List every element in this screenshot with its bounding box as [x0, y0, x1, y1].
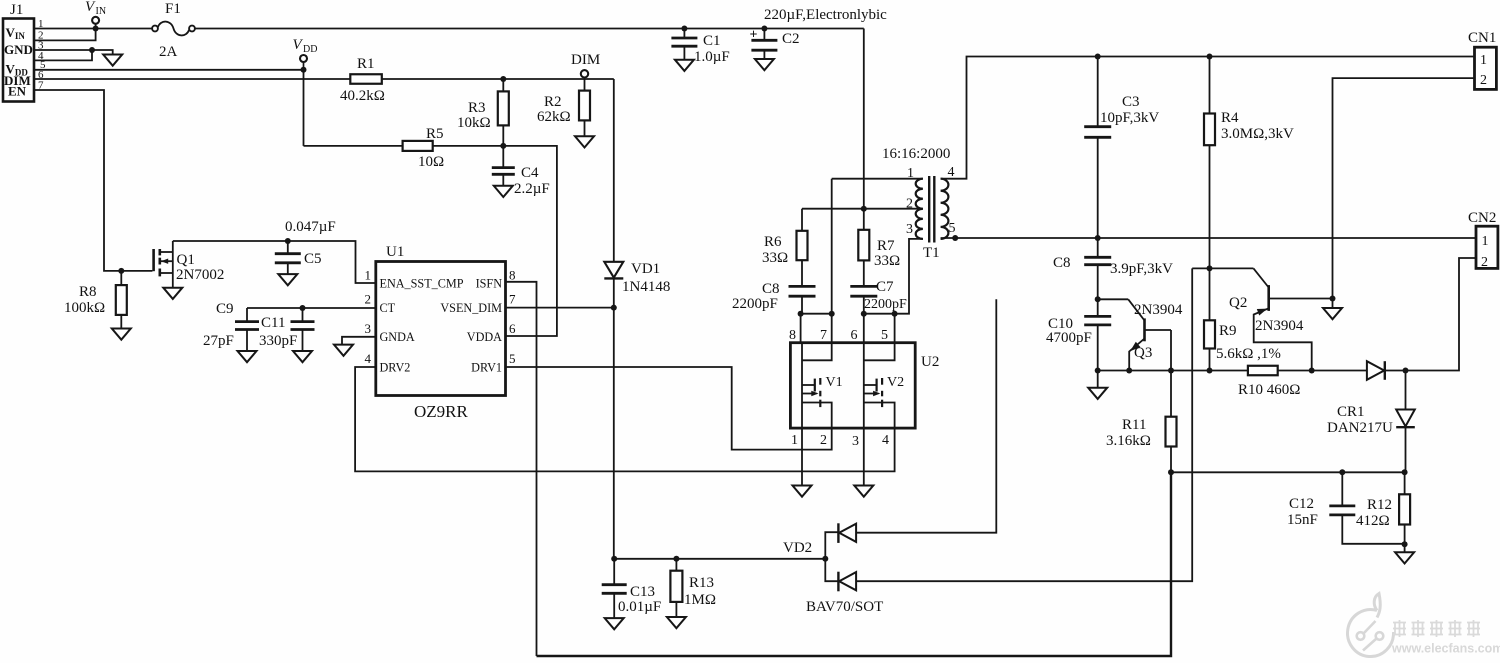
capacitor C1 [671, 29, 729, 66]
svg-text:1: 1 [1482, 234, 1489, 249]
watermark logo [1348, 594, 1394, 657]
ground at J1 [103, 55, 122, 66]
wire T1 pin5 to CN2 pin1 [941, 237, 1476, 239]
transistor Q2 2N3904 [1229, 268, 1333, 370]
wire U1 pin8 ISFN sense line [506, 282, 537, 656]
capacitor C11 [259, 308, 315, 351]
svg-text:J1: J1 [10, 2, 23, 18]
ground at R13 [667, 617, 686, 628]
svg-text:3: 3 [906, 222, 913, 237]
svg-text:2200pF: 2200pF [732, 296, 778, 312]
fuse F1 [152, 1, 195, 60]
node C2 junction [761, 26, 767, 32]
node C13 junction [611, 556, 617, 562]
wire J1 pin2 to VIN node [34, 29, 96, 41]
svg-text:Q1: Q1 [177, 252, 195, 268]
wire U1 pin5 DRV1 to U2 pin2 [506, 367, 832, 450]
node VD2 common junction [822, 556, 828, 562]
svg-text:ISFN: ISFN [476, 277, 503, 291]
ground at U2 pin1 [793, 486, 812, 497]
capacitor C4 [492, 146, 550, 197]
watermark text [1391, 620, 1500, 656]
wire R5 to VDDA corner [433, 146, 557, 336]
svg-text:Q2: Q2 [1229, 295, 1247, 311]
svg-text:C2: C2 [782, 31, 800, 47]
wire J1 pin6 to R1 [34, 78, 350, 80]
node C8 bottom junction [798, 311, 804, 317]
svg-text:C4: C4 [521, 165, 539, 181]
node R3 bottom junction [500, 143, 506, 149]
svg-text:R2: R2 [544, 94, 562, 110]
svg-text:VD1: VD1 [631, 261, 660, 277]
svg-text:OZ9RR: OZ9RR [414, 402, 469, 421]
resistor R8 [64, 271, 127, 329]
resistor R11 [1106, 371, 1177, 473]
svg-text:V1: V1 [826, 375, 843, 390]
wire VDD corner to R5 [304, 145, 403, 147]
svg-text:27pF: 27pF [203, 333, 234, 349]
wire Q1 drain rail to U1 pin1 [173, 241, 376, 283]
svg-text:1: 1 [365, 268, 372, 283]
svg-text:8: 8 [789, 328, 796, 343]
ground at GNDA [334, 345, 353, 356]
capacitor C2 electrolytic [750, 7, 888, 59]
wire CN1 pin2 to Q2 base node [1333, 78, 1475, 298]
svg-text:4: 4 [365, 351, 372, 366]
svg-text:CR1: CR1 [1337, 404, 1365, 420]
node DIM test point [571, 52, 600, 78]
wire DIM row down to VD1 [613, 79, 615, 262]
svg-text:1MΩ: 1MΩ [684, 592, 716, 608]
node R12 top junction [1402, 469, 1408, 475]
wire ground stub [92, 50, 113, 55]
svg-text:C3: C3 [1122, 94, 1140, 110]
svg-text:3: 3 [852, 434, 859, 449]
svg-text:5: 5 [881, 328, 888, 343]
wire R11 node row to CR1 bottom [1171, 471, 1405, 473]
wire VD2 lower anode to Q2 collector node riser [856, 268, 1192, 581]
svg-text:0.01µF: 0.01µF [618, 599, 661, 615]
resistor R7 [858, 209, 900, 287]
resistor R2 [537, 79, 590, 136]
svg-text:C9: C9 [216, 301, 234, 317]
svg-text:R3: R3 [468, 100, 486, 116]
transistor Q3 2N3904 [1128, 299, 1183, 370]
svg-text:40.2kΩ: 40.2kΩ [340, 88, 385, 104]
svg-text:R13: R13 [689, 575, 714, 591]
diode CR1 second [1396, 371, 1415, 473]
wire J1 pin7 EN to Q1 gate [34, 90, 152, 271]
ground at C11 [293, 351, 312, 362]
svg-text:8: 8 [509, 268, 516, 283]
resistor R12 [1356, 472, 1410, 552]
capacitor C7 snubber [850, 279, 907, 314]
svg-text:1N4148: 1N4148 [622, 279, 670, 295]
resistor R6 [762, 209, 808, 287]
svg-text:DRV1: DRV1 [471, 361, 502, 375]
node T1 pin5 junction [952, 235, 958, 241]
node R9 bottom junction [1207, 368, 1213, 374]
svg-text:100kΩ: 100kΩ [64, 300, 105, 316]
wire U2 pin7 pin8 drain node [801, 313, 832, 315]
wire U1 pin4 DRV2 to U2 pin4 [355, 367, 895, 471]
node R12 bottom junction [1402, 541, 1408, 547]
node R11 bottom junction [1168, 469, 1174, 475]
svg-text:1: 1 [1480, 53, 1487, 68]
svg-text:0.047µF: 0.047µF [285, 219, 336, 235]
node VIN test point [85, 0, 106, 32]
node Q2 base ground junction [1330, 296, 1336, 302]
svg-text:10pF,3kV: 10pF,3kV [1100, 110, 1159, 126]
svg-text:4: 4 [948, 165, 955, 180]
svg-text:C5: C5 [304, 251, 322, 267]
wire fuse to C1 C2 rail [195, 28, 864, 30]
svg-text:C1: C1 [703, 33, 721, 49]
node C5 junction [285, 238, 291, 244]
resistor R4 [1204, 54, 1294, 269]
resistor R10 [1238, 366, 1300, 398]
wire R10 to CR1 [1278, 370, 1367, 372]
svg-text:R6: R6 [764, 234, 782, 250]
svg-text:GNDA: GNDA [380, 330, 415, 344]
ground at C4 [494, 186, 513, 197]
svg-text:R4: R4 [1221, 110, 1239, 126]
ground at C5 [278, 274, 297, 285]
wire C10 node to Q3 collector [1098, 298, 1129, 300]
ground at C1 [675, 60, 694, 71]
svg-text:2: 2 [906, 197, 913, 212]
connector J1 [3, 2, 46, 102]
svg-text:5: 5 [509, 351, 516, 366]
wire U2 pin5 stub [894, 314, 896, 343]
wire C13 node to VD2 node [614, 558, 825, 560]
svg-text:2: 2 [820, 433, 827, 448]
capacitor C3 [1084, 54, 1159, 239]
svg-text:2.2µF: 2.2µF [514, 181, 550, 197]
node C12 junction [1339, 469, 1345, 475]
capacitor C5 [275, 219, 336, 274]
wire J1 pin1 to fuse F1 [34, 28, 152, 30]
capacitor C8 sense 3.9pF [1053, 238, 1173, 299]
node U2 pin7 junction [829, 311, 835, 317]
ground at U2 pin3 [854, 486, 873, 497]
svg-text:R9: R9 [1219, 323, 1237, 339]
svg-text:C7: C7 [876, 279, 894, 295]
wire U2 pin8 stub [800, 314, 802, 343]
wire center tap row [802, 208, 923, 210]
svg-text:R1: R1 [357, 56, 375, 72]
wire Q3 base to R11 node [1170, 330, 1172, 371]
node C3 C8 junction [1095, 235, 1101, 241]
svg-text:DAN217U: DAN217U [1327, 420, 1393, 436]
svg-text:4700pF: 4700pF [1046, 330, 1092, 346]
svg-text:2: 2 [1481, 255, 1488, 270]
svg-text:T1: T1 [923, 245, 940, 261]
svg-text:7: 7 [820, 328, 827, 343]
ground at R2 [575, 136, 594, 147]
wire J1 pin3 to ground node [34, 49, 92, 51]
node C1 junction [681, 26, 687, 32]
svg-text:VSEN_DIM: VSEN_DIM [440, 301, 502, 315]
wire R11 bottom to sense rail [537, 472, 1172, 656]
capacitor C9 [203, 301, 259, 351]
connector CN2 [1468, 210, 1498, 270]
wire U2 pin5 pin6 drain node [864, 313, 895, 315]
svg-text:www.elecfans.com: www.elecfans.com [1391, 642, 1500, 656]
svg-text:IN: IN [96, 6, 107, 17]
wire T1 pin1 riser to U2 pin7 [831, 179, 833, 343]
svg-text:R12: R12 [1367, 497, 1392, 513]
svg-text:CN2: CN2 [1468, 210, 1496, 226]
diode VD1 1N4148 [604, 261, 670, 295]
node C11 junction [300, 305, 306, 311]
svg-text:U1: U1 [386, 244, 404, 260]
node Q2 emitter junction [1309, 368, 1315, 374]
svg-text:BAV70/SOT: BAV70/SOT [806, 599, 883, 615]
svg-text:R11: R11 [1122, 417, 1146, 433]
wire U2 pin1 to ground [801, 428, 803, 485]
svg-text:U2: U2 [921, 354, 939, 370]
wire C10 bottom ground stub [1097, 371, 1099, 388]
diode VD2 upper [783, 523, 856, 559]
svg-text:ENA_SST_CMP: ENA_SST_CMP [380, 277, 464, 291]
svg-text:VDDA: VDDA [467, 330, 502, 344]
svg-text:CN1: CN1 [1468, 30, 1496, 46]
wire T1 pin4 to HV rail [941, 57, 1475, 179]
svg-text:220µF,Electronlybic: 220µF,Electronlybic [764, 7, 887, 23]
wire J1 pin4 to ground node [34, 50, 92, 60]
wire T1 pin2 center tap rail [863, 29, 865, 209]
wire U2 pin6 stub [863, 314, 865, 343]
node Q3 emitter junction [1126, 368, 1132, 374]
capacitor C10 [1046, 299, 1111, 370]
svg-text:R8: R8 [79, 284, 97, 300]
node VSEN junction [611, 305, 617, 311]
transistor V1 [802, 343, 843, 428]
svg-text:2N7002: 2N7002 [176, 267, 224, 283]
wire R1 to DIM node to VD1 corner [382, 78, 614, 80]
ground at C9 [238, 351, 257, 362]
svg-text:DD: DD [303, 44, 317, 55]
svg-text:C13: C13 [630, 584, 655, 600]
wire VD2 upper anode to C10 node riser [856, 299, 996, 532]
svg-text:7: 7 [509, 292, 516, 307]
resistor R13 [670, 559, 716, 617]
wire CR1 to CN2 pin2 [1385, 258, 1476, 371]
transistor Q1 [154, 241, 225, 288]
node U2 pin5 junction [892, 311, 898, 317]
wire T1 pin1 [832, 178, 923, 180]
ground at C2 [755, 59, 774, 70]
wire J1 pin5 to VDD node [34, 69, 304, 71]
node VDD test point [293, 37, 318, 73]
wire U2 pin3 to ground [863, 428, 865, 485]
capacitor C12 [1287, 472, 1405, 544]
wire R4 node to Q2 collector [1192, 267, 1253, 269]
svg-text:330pF: 330pF [259, 333, 297, 349]
svg-text:5.6kΩ ,1%: 5.6kΩ ,1% [1216, 346, 1281, 362]
svg-text:4: 4 [882, 433, 889, 448]
wire feedback row C10 to R10 [1098, 370, 1248, 372]
svg-text:2: 2 [1480, 73, 1487, 88]
wire U1 pin7 VSEN_DIM [506, 307, 614, 309]
node R4 R9 junction [1207, 265, 1213, 271]
node R11 top junction [1168, 368, 1174, 374]
wire U1 pin3 GNDA to ground [342, 337, 376, 345]
svg-text:R5: R5 [426, 126, 444, 142]
svg-text:2: 2 [365, 292, 372, 307]
svg-text:10Ω: 10Ω [418, 154, 444, 170]
ground at C10 [1088, 388, 1107, 399]
svg-text:R7: R7 [877, 238, 895, 254]
ground at Q2 base [1323, 308, 1342, 319]
capacitor C8 snubber [732, 281, 816, 314]
svg-text:1.0µF: 1.0µF [694, 49, 730, 65]
svg-text:3: 3 [365, 321, 372, 336]
wire Q2 base ground stub [1332, 299, 1334, 309]
svg-text:412Ω: 412Ω [1356, 513, 1390, 529]
ground at Q1 source [163, 288, 182, 299]
svg-text:62kΩ: 62kΩ [537, 109, 571, 125]
connector CN1 [1468, 30, 1496, 89]
wire VDD node down to R5 row [303, 70, 305, 146]
ground at C13 [605, 618, 624, 629]
svg-text:3.0MΩ,3kV: 3.0MΩ,3kV [1221, 126, 1294, 142]
svg-text:F1: F1 [165, 1, 181, 17]
svg-text:2200pF: 2200pF [864, 297, 907, 312]
diode VD2 lower [806, 559, 883, 615]
resistor R1 [340, 56, 385, 104]
svg-text:DIM: DIM [571, 52, 600, 68]
node GND junction [89, 47, 95, 53]
transistor V2 [864, 343, 904, 428]
svg-text:+: + [750, 28, 758, 43]
svg-text:5: 5 [949, 221, 956, 236]
svg-text:16:16:2000: 16:16:2000 [882, 146, 950, 162]
capacitor C13 [602, 559, 662, 618]
svg-text:6: 6 [509, 321, 516, 336]
svg-text:C12: C12 [1289, 496, 1314, 512]
resistor R5 [403, 126, 445, 170]
node C10 bottom junction [1095, 368, 1101, 374]
svg-text:2N3904: 2N3904 [1255, 318, 1304, 334]
diode CR1 first [1327, 361, 1393, 436]
svg-text:2A: 2A [159, 44, 178, 60]
node R13 junction [673, 556, 679, 562]
svg-text:15nF: 15nF [1287, 512, 1318, 528]
op-amp U1 OZ9RR controller [365, 244, 517, 421]
svg-text:CT: CT [380, 301, 396, 315]
svg-text:10kΩ: 10kΩ [457, 115, 491, 131]
ground at R8 [112, 329, 131, 340]
node C10 top junction [1095, 296, 1101, 302]
svg-text:1: 1 [791, 433, 798, 448]
svg-text:33Ω: 33Ω [762, 250, 788, 266]
node C7 bottom junction [861, 311, 867, 317]
svg-text:33Ω: 33Ω [874, 253, 900, 269]
svg-text:3.16kΩ: 3.16kΩ [1106, 433, 1151, 449]
svg-text:3.9pF,3kV: 3.9pF,3kV [1110, 261, 1173, 277]
node T1 pin2 junction [861, 206, 867, 212]
svg-text:V2: V2 [887, 375, 904, 390]
svg-text:R10 460Ω: R10 460Ω [1238, 382, 1300, 398]
svg-text:Q3: Q3 [1134, 345, 1152, 361]
svg-text:C8: C8 [762, 281, 780, 297]
node CR1 junction [1403, 368, 1409, 374]
svg-text:EN: EN [8, 84, 27, 99]
svg-text:C11: C11 [261, 315, 285, 331]
wire VD1 to VSEN junction [613, 278, 615, 307]
transistor array U2 [789, 328, 939, 449]
wire T1 pin3 to U2 pin5 [895, 239, 923, 314]
svg-text:DRV2: DRV2 [380, 361, 411, 375]
resistor R9 [1204, 268, 1281, 370]
svg-text:2N3904: 2N3904 [1134, 302, 1183, 318]
ground at R12 [1395, 552, 1414, 563]
wire C9 C11 row to U1 pin2 CT [247, 307, 376, 309]
svg-text:C8: C8 [1053, 255, 1071, 271]
node R3 top junction [500, 76, 506, 82]
svg-text:VD2: VD2 [783, 540, 812, 556]
svg-text:6: 6 [851, 328, 858, 343]
svg-text:GND: GND [4, 42, 33, 57]
node R8 junction [118, 268, 124, 274]
transformer T1 16:16:2000 [882, 146, 956, 261]
resistor R3 [457, 79, 509, 146]
wire VSEN junction down to C13 node [613, 308, 615, 559]
